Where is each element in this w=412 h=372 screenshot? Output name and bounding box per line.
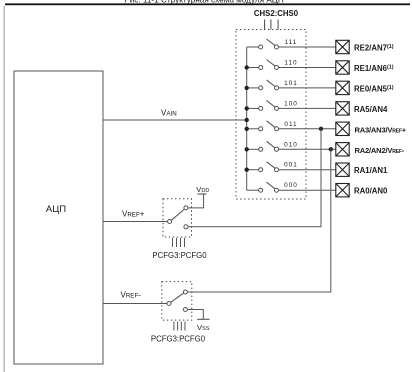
pin RA2/AN2/VREF- xyxy=(336,143,405,156)
label VREF- xyxy=(121,291,142,300)
svg-text:RE1/AN6(1): RE1/AN6(1) xyxy=(354,64,394,73)
svg-text:110: 110 xyxy=(284,60,297,67)
switch VREF- select xyxy=(167,290,187,312)
label CHS2:CHS0 xyxy=(254,9,299,18)
wire VREF- xyxy=(103,303,167,305)
VREF+ switch dashed box xyxy=(163,199,192,237)
VREF- switch dashed box xyxy=(162,282,192,321)
svg-text:VREF+: VREF+ xyxy=(122,210,145,219)
svg-text:VREF-: VREF- xyxy=(121,291,142,300)
title caption (cut off at top) xyxy=(124,0,284,5)
svg-text:RA3/AN3/VREF+: RA3/AN3/VREF+ xyxy=(355,125,407,134)
junction on bus VAIN xyxy=(245,118,249,122)
svg-text:PCFG3:PCFG0: PCFG3:PCFG0 xyxy=(152,251,207,260)
svg-text:100: 100 xyxy=(284,100,298,107)
switch 001 xyxy=(247,162,336,172)
junction on bus row 011 xyxy=(245,127,249,131)
PCFG control ticks (VREF-) xyxy=(174,322,185,331)
pin RA3/AN3/VREF+ xyxy=(336,122,407,135)
svg-text:VDD: VDD xyxy=(196,185,209,194)
label VREF+ xyxy=(122,210,145,219)
junction node row 010 to VREF- xyxy=(329,147,333,151)
svg-text:010: 010 xyxy=(284,141,298,148)
power VDD xyxy=(196,185,209,194)
pin RE2/AN7 xyxy=(336,40,394,53)
svg-text:001: 001 xyxy=(284,162,298,169)
pin RE1/AN6 xyxy=(336,61,394,74)
wire: mux input bus xyxy=(246,47,248,190)
svg-text:101: 101 xyxy=(284,80,298,87)
junction on bus row 010 xyxy=(245,147,249,151)
label VAIN xyxy=(161,109,177,118)
junction on bus row 100 xyxy=(245,106,249,110)
svg-text:RA1/AN1: RA1/AN1 xyxy=(354,166,388,175)
pin RA1/AN1 xyxy=(336,163,388,176)
svg-text:111: 111 xyxy=(285,39,298,46)
svg-text:АЦП: АЦП xyxy=(46,204,66,215)
wire VREF+ xyxy=(103,221,168,223)
page left border xyxy=(3,6,5,372)
wire VAIN xyxy=(103,119,247,121)
switch 111 xyxy=(247,39,336,49)
junction on bus row 101 xyxy=(245,86,249,90)
svg-text:RA0/AN0: RA0/AN0 xyxy=(354,187,388,196)
switch 011 xyxy=(247,121,336,131)
svg-text:CHS2:CHS0: CHS2:CHS0 xyxy=(254,9,299,18)
svg-text:RA5/AN4: RA5/AN4 xyxy=(354,105,388,114)
svg-text:PCFG3:PCFG0: PCFG3:PCFG0 xyxy=(151,335,206,344)
label PCFG3:PCFG0 (VREF-) xyxy=(151,335,206,344)
op-amp U1: ADC block АЦП xyxy=(14,71,103,364)
wire VREF- bottom contact to VSS xyxy=(188,310,204,320)
switch VREF+ select xyxy=(168,206,188,229)
wire VREF+ top contact to VDD xyxy=(188,194,204,208)
switch 000 xyxy=(247,182,336,192)
svg-text:000: 000 xyxy=(284,182,298,189)
pin RA0/AN0 xyxy=(336,184,388,197)
svg-text:011: 011 xyxy=(284,121,297,128)
junction on bus row 110 xyxy=(245,65,249,69)
wire row 011 to VREF+ switch xyxy=(188,129,321,227)
ground VSS xyxy=(197,319,210,332)
junction node row 011 to VREF+ xyxy=(319,127,323,131)
analog mux dashed box xyxy=(236,30,306,200)
CHS control lines xyxy=(265,20,279,30)
svg-text:RE0/AN5(1): RE0/AN5(1) xyxy=(354,84,394,93)
label PCFG3:PCFG0 (VREF+) xyxy=(152,251,207,260)
svg-text:RE2/AN7(1): RE2/AN7(1) xyxy=(354,44,394,53)
wire row 010 to VREF- switch xyxy=(188,149,331,292)
pin RA5/AN4 xyxy=(336,102,388,115)
junction on bus row 001 xyxy=(245,168,249,172)
switch 100 xyxy=(247,100,336,110)
svg-text:VSS: VSS xyxy=(197,323,210,332)
switch 110 xyxy=(247,60,336,70)
switch 101 xyxy=(247,80,336,90)
PCFG control ticks (VREF+) xyxy=(173,238,185,247)
pin RE0/AN5 xyxy=(336,81,394,94)
title underline rule xyxy=(5,3,410,5)
svg-text:RA2/AN2/VREF-: RA2/AN2/VREF- xyxy=(355,146,405,155)
svg-text:VAIN: VAIN xyxy=(161,109,177,118)
switch 010 xyxy=(247,141,336,151)
